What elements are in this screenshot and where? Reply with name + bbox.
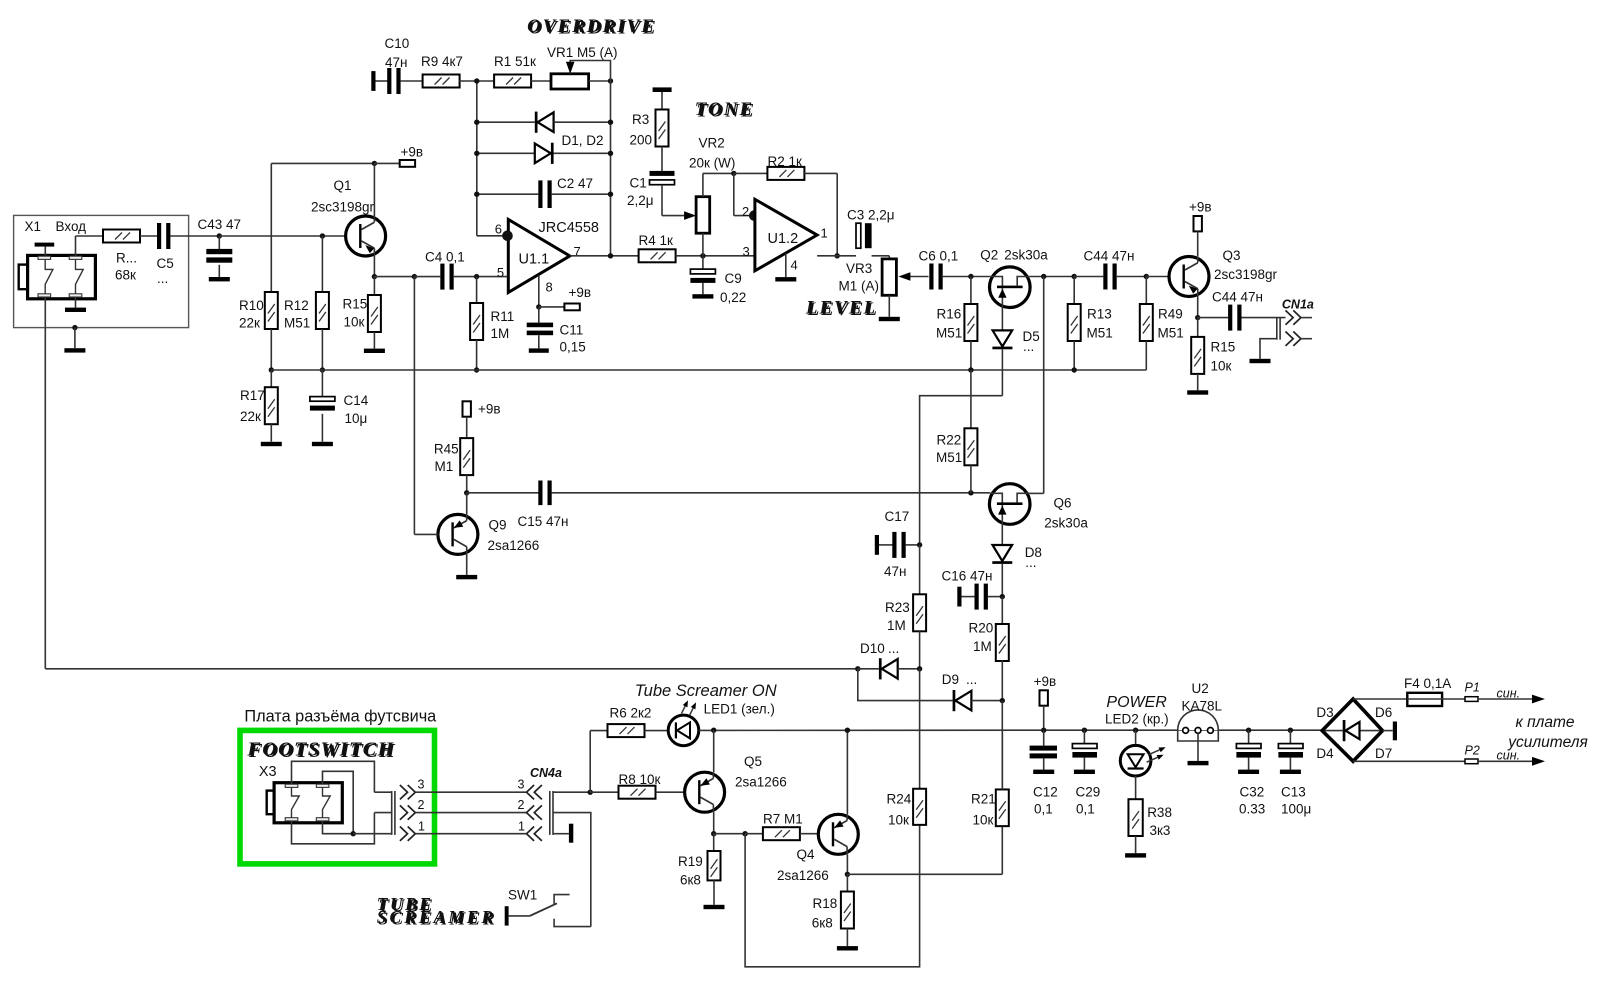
wire C5 to C43 node: [170, 235, 219, 237]
transistor Q4 2sa1266: [818, 728, 858, 855]
svg-text:C32: C32: [1240, 785, 1265, 800]
pin P2: [1465, 759, 1534, 764]
svg-text:6к8: 6к8: [812, 916, 833, 931]
wire D9 node down to R21: [1001, 701, 1003, 790]
transistor Q6 2sk30a JFET: [989, 484, 1030, 525]
svg-text:...: ...: [888, 641, 899, 656]
resistor R45 M1: [460, 438, 473, 495]
label +9в pin8: [569, 285, 592, 300]
svg-text:R20: R20: [969, 621, 994, 636]
connector left double line: [392, 791, 395, 835]
wire bridge to P2: [1353, 760, 1465, 762]
svg-text:R...: R...: [116, 251, 137, 266]
svg-text:P1: P1: [1465, 681, 1480, 695]
bridge rectifier D3 D4 D6 D7: [1322, 699, 1382, 761]
svg-text:U1.2: U1.2: [768, 231, 799, 247]
label C44 47н: [1084, 249, 1135, 264]
label Q4: [797, 847, 816, 862]
svg-text:C44 47н: C44 47н: [1212, 290, 1263, 305]
svg-text:R15: R15: [1211, 340, 1236, 355]
svg-text:C13: C13: [1281, 785, 1306, 800]
label 2sk30a Q2: [1004, 248, 1048, 263]
label D1, D2: [562, 133, 604, 148]
svg-text:47н: 47н: [385, 55, 407, 70]
label C10 47н: [385, 36, 410, 70]
R2 to output node: [804, 173, 840, 258]
CN1a ground leg: [1250, 339, 1277, 363]
label R4 1к: [639, 233, 674, 248]
label VR2: [699, 136, 725, 151]
svg-text:47н: 47н: [884, 564, 906, 579]
X1 input board box: [14, 215, 189, 327]
wire R6 to LED1: [645, 730, 669, 732]
label C15 47н: [518, 514, 569, 529]
footswitch jack X3: [267, 783, 343, 823]
svg-text:3: 3: [418, 778, 425, 792]
svg-text:Q5: Q5: [744, 754, 762, 769]
svg-text:M1 (A): M1 (A): [839, 279, 880, 294]
svg-text:X3: X3: [259, 764, 277, 780]
capacitor C12 0,1: [1030, 730, 1057, 774]
svg-text:R15: R15: [343, 297, 368, 312]
resistor R9 4к7: [423, 75, 460, 88]
resistor R24 10к: [913, 789, 926, 825]
wire R10 to mid rail: [269, 329, 274, 373]
label Q6: [1054, 496, 1072, 511]
svg-text:6к8: 6к8: [680, 873, 701, 888]
svg-text:0,1: 0,1: [1076, 802, 1095, 817]
label OVERDRIVE: [527, 16, 658, 39]
label R11 1M: [491, 309, 515, 341]
resistor R7 M1: [745, 827, 818, 840]
svg-text:C15 47н: C15 47н: [518, 514, 569, 529]
LED2 red: [1120, 728, 1165, 777]
label TONE: [695, 99, 756, 122]
node R12 top: [320, 233, 325, 238]
svg-text:2: 2: [742, 204, 749, 219]
svg-text:10к: 10к: [344, 315, 365, 330]
capacitor C17 47н: [875, 532, 923, 558]
resistor R12 M51: [316, 236, 329, 329]
resistor R17 22к: [261, 370, 282, 446]
label LED1 (зел.): [704, 702, 775, 717]
resistor R20 1M: [996, 597, 1009, 701]
node R13: [1072, 274, 1077, 279]
capacitor C29 0,1: [1072, 728, 1097, 775]
resistor R4 1к: [639, 249, 676, 262]
jack tip switch bar: [35, 243, 55, 256]
svg-text:KA78L: KA78L: [1182, 699, 1223, 714]
svg-text:0,1: 0,1: [1034, 802, 1053, 817]
svg-text:2sc3198gr: 2sc3198gr: [1214, 267, 1278, 282]
C1 to VR2 wiper arrow: [662, 211, 696, 220]
svg-text:Q3: Q3: [1223, 248, 1241, 263]
svg-text:1: 1: [821, 226, 828, 241]
node R9-R1: [459, 78, 494, 83]
svg-text:R8 10к: R8 10к: [619, 772, 661, 787]
label D9 ...: [942, 672, 977, 687]
svg-text:C44 47н: C44 47н: [1084, 249, 1135, 264]
svg-text:200: 200: [630, 133, 653, 148]
capacitor C43: [206, 236, 232, 281]
svg-text:U1.1: U1.1: [519, 252, 550, 268]
svg-text:C1: C1: [630, 176, 647, 191]
R3 top bar: [653, 87, 672, 109]
svg-text:1M: 1M: [973, 639, 992, 654]
pin P1: [1465, 697, 1534, 702]
svg-text:M51: M51: [936, 326, 962, 341]
svg-text:Q1: Q1: [334, 178, 352, 193]
label C12 0,1: [1033, 785, 1058, 817]
svg-text:R12: R12: [284, 298, 309, 313]
svg-text:R6 2к2: R6 2к2: [610, 706, 652, 721]
pin4 ground stub: [775, 253, 796, 281]
label син. P1: [1497, 686, 1521, 700]
svg-text:Q9: Q9: [489, 518, 507, 533]
capacitor C1 2,2м polar: [650, 147, 675, 216]
svg-text:3: 3: [518, 778, 525, 792]
svg-text:R18: R18: [813, 896, 838, 911]
label R2 1к: [768, 154, 803, 169]
wire to Q3 base: [1146, 276, 1169, 278]
power +9в flag R45: [463, 401, 501, 438]
connector CN1a: [1277, 310, 1312, 346]
label R7 M1: [763, 812, 803, 827]
label Плата разъёма футсвича: [244, 708, 437, 726]
svg-text:...: ...: [157, 271, 168, 286]
svg-text:LEVEL: LEVEL: [805, 298, 877, 319]
svg-text:Q4: Q4: [797, 847, 816, 862]
svg-text:Tube Screamer ON: Tube Screamer ON: [635, 682, 777, 700]
svg-text:C5: C5: [157, 256, 174, 271]
label 2sk30a Q6: [1044, 515, 1088, 530]
svg-text:R1 51к: R1 51к: [494, 54, 536, 69]
rail R6 to R8 node: [589, 731, 591, 793]
label R6 2к2: [610, 706, 652, 721]
label R10 22к: [239, 298, 264, 331]
label C3 2,2μ: [847, 208, 895, 223]
connector CN4a double line: [550, 791, 553, 835]
D5 route to C17 line: [920, 396, 1003, 545]
label P1: [1465, 681, 1480, 695]
resistor R8 10к: [590, 786, 684, 799]
svg-text:1: 1: [418, 819, 425, 833]
X3 ring inner loop: [323, 771, 356, 836]
label R8 10к: [619, 772, 661, 787]
svg-text:R11: R11: [491, 309, 515, 324]
row3 to R8 node: [553, 790, 593, 795]
Q4 collector node: [845, 854, 850, 877]
label R23 1M: [885, 600, 910, 633]
svg-text:R24: R24: [887, 792, 912, 807]
Q9 collector ground: [456, 554, 477, 579]
svg-text:POWER: POWER: [1106, 694, 1167, 711]
svg-text:Q6: Q6: [1054, 496, 1072, 511]
label R19 6к8: [678, 854, 703, 888]
svg-text:...: ...: [1025, 555, 1036, 570]
svg-text:C11: C11: [560, 323, 584, 338]
wire C43 to Q1 base: [219, 235, 345, 237]
svg-text:1: 1: [518, 819, 525, 833]
bottom wire Q4 to R21: [847, 826, 1002, 874]
label R45 M1: [434, 442, 459, 475]
svg-text:FOOTSWITCH: FOOTSWITCH: [246, 739, 394, 761]
label Q9: [489, 518, 507, 533]
svg-text:VR1 M5 (A): VR1 M5 (A): [547, 45, 618, 60]
label C14 10μ: [344, 393, 369, 426]
label D6: [1375, 705, 1392, 720]
label VR1 M5 (A): [547, 45, 618, 60]
svg-text:8: 8: [546, 280, 553, 295]
label 47н C17: [884, 564, 906, 579]
svg-text:Вход: Вход: [56, 219, 87, 234]
svg-text:OVERDRIVE: OVERDRIVE: [527, 16, 656, 37]
label C29 0,1: [1076, 785, 1101, 817]
capacitor C5: [157, 223, 170, 249]
wire R... to C5: [140, 235, 157, 237]
pin label 5: [497, 265, 504, 280]
resistor R6 2к2: [590, 724, 644, 737]
svg-text:4: 4: [791, 258, 798, 273]
svg-text:R4 1к: R4 1к: [639, 233, 674, 248]
wire C6 to Q2: [943, 274, 990, 279]
resistor R11 1M: [470, 277, 483, 373]
wire R1 to VR1: [531, 80, 551, 82]
svg-text:SW1: SW1: [508, 888, 537, 903]
label C1 2,2μ: [627, 176, 654, 209]
svg-text:VR2: VR2: [699, 136, 725, 151]
wire C15 to Q6 gate: [968, 490, 990, 495]
svg-text:U2: U2: [1192, 681, 1209, 696]
LED1 green: [668, 700, 699, 745]
label CN1a: [1282, 298, 1314, 312]
svg-text:M51: M51: [1087, 326, 1113, 341]
wire LED1 to rail: [699, 728, 1044, 733]
label Q5: [744, 754, 762, 769]
label Tube Screamer ON: [635, 682, 777, 700]
Q9 base wire: [414, 533, 438, 535]
svg-text:C29: C29: [1076, 785, 1101, 800]
label R16 M51: [936, 307, 962, 341]
svg-text:C17: C17: [885, 509, 910, 524]
svg-text:2sa1266: 2sa1266: [735, 775, 787, 790]
bypass wire from X1: [45, 666, 860, 671]
R21 top wire: [1001, 730, 1003, 789]
wire R4 to pin3 node: [676, 253, 755, 258]
cable rows to CN4a: [434, 792, 527, 834]
ground below X1 box: [64, 328, 85, 353]
svg-text:2sk30a: 2sk30a: [1004, 248, 1048, 263]
resistor R13 M51: [1068, 277, 1081, 373]
svg-text:CN4a: CN4a: [530, 766, 562, 780]
svg-text:Плата разъёма футсвича: Плата разъёма футсвича: [244, 708, 437, 726]
op-amp U1.2: [755, 199, 817, 270]
svg-text:10к: 10к: [973, 813, 994, 828]
svg-text:TONE: TONE: [695, 99, 754, 120]
resistor R16 M51: [964, 277, 977, 373]
row2 to SW1: [553, 813, 591, 927]
label C9 0,22: [720, 271, 746, 305]
wire C4 to pin5: [454, 274, 509, 279]
bridge right terminal bar: [1383, 722, 1398, 741]
diode D2: [474, 143, 613, 164]
svg-text:2sa1266: 2sa1266: [777, 868, 829, 883]
label CN4a: [530, 766, 562, 780]
diode D9: [953, 690, 1005, 711]
feedback left vertical: [476, 81, 478, 236]
Q5 collector node: [711, 812, 716, 836]
pin label 4: [791, 258, 798, 273]
label Q2: [980, 248, 998, 263]
wire D10 node down to R24: [919, 669, 921, 789]
resistor R3 200: [656, 110, 669, 147]
svg-text:M51: M51: [284, 316, 310, 331]
label Q1: [334, 178, 352, 193]
label D8 ...: [1025, 545, 1042, 570]
svg-text:D9: D9: [942, 672, 959, 687]
label R22 M51: [936, 433, 962, 466]
pin2 wire: [734, 173, 760, 221]
label C4 0,1: [425, 250, 465, 265]
svg-text:7: 7: [574, 244, 581, 259]
diode D8: [992, 524, 1012, 597]
capacitor C4 0,1: [440, 264, 453, 290]
resistor R10 22к: [265, 292, 278, 329]
Q2 drain node: [1030, 274, 1074, 279]
label LEVEL: [805, 298, 879, 321]
resistor R22 M51: [964, 370, 977, 493]
diode D10: [858, 658, 923, 679]
svg-text:D4: D4: [1316, 746, 1334, 761]
capacitor C6 0,1: [929, 264, 942, 290]
svg-text:син.: син.: [1497, 686, 1521, 700]
diode D5: [992, 307, 1012, 396]
U1.1 output wire: [570, 253, 639, 258]
label R12 M51: [284, 298, 310, 331]
label R38 3к3: [1147, 805, 1172, 838]
label D3: [1316, 705, 1333, 720]
label C17: [885, 509, 910, 524]
svg-text:R17: R17: [240, 388, 265, 403]
svg-text:C43 47: C43 47: [198, 217, 242, 232]
svg-text:C12: C12: [1033, 785, 1058, 800]
Q3 emitter node: [1195, 297, 1200, 321]
capacitor C3 2,2м polar: [856, 223, 872, 248]
VR3 ground: [879, 295, 900, 321]
label D10 ...: [860, 641, 899, 656]
svg-text:R16: R16: [937, 307, 962, 322]
label C13 100μ: [1281, 785, 1311, 817]
svg-text:+9в: +9в: [401, 145, 424, 160]
label JRC4558: [539, 220, 599, 236]
label KA78L: [1182, 699, 1223, 714]
svg-text:F4 0,1A: F4 0,1A: [1404, 676, 1451, 691]
label D5 ...: [1023, 329, 1040, 354]
label P2: [1465, 744, 1480, 758]
label R17 22к: [240, 388, 265, 424]
svg-text:R22: R22: [937, 433, 962, 448]
svg-text:22к: 22к: [240, 409, 261, 424]
label M1 (A): [839, 279, 880, 294]
svg-text:1M: 1M: [887, 618, 906, 633]
label син. P2: [1497, 748, 1521, 762]
svg-text:P2: P2: [1465, 744, 1480, 758]
svg-text:D1, D2: D1, D2: [562, 133, 604, 148]
svg-text:C3 2,2μ: C3 2,2μ: [847, 208, 895, 223]
svg-text:M1: M1: [435, 459, 454, 474]
resistor R19 6к8: [704, 834, 725, 910]
resistor R23 1M: [913, 545, 926, 669]
pin label 3: [743, 244, 750, 259]
svg-text:M51: M51: [936, 450, 962, 465]
label FOOTSWITCH: [246, 739, 396, 763]
transistor Q5 2sa1266: [685, 730, 725, 812]
svg-text:R23: R23: [885, 600, 910, 615]
label R21 10к: [971, 792, 996, 828]
transistor Q1 2sc3198gr: [346, 216, 386, 256]
node C43: [217, 233, 222, 238]
label LED2 (кр.): [1105, 712, 1169, 727]
label R20 1M: [969, 621, 994, 655]
VR3 wiper arrow: [898, 272, 928, 281]
svg-text:...: ...: [1023, 339, 1034, 354]
svg-text:+9в: +9в: [569, 285, 592, 300]
pin 8 stub and +9в: [536, 276, 564, 310]
svg-text:10к: 10к: [888, 813, 909, 828]
capacitor C16 47н: [957, 584, 1005, 610]
label POWER: [1106, 694, 1167, 711]
pin label 8: [546, 280, 553, 295]
capacitor C10 47н: [371, 68, 423, 94]
label 2sc3198gr Q3: [1214, 267, 1278, 282]
svg-text:R49: R49: [1158, 307, 1183, 322]
resistor R49 M51: [1140, 277, 1153, 371]
capacitor C44 47н: [1074, 264, 1146, 290]
svg-text:22к: 22к: [239, 316, 260, 331]
resistor R18 6к8: [837, 874, 858, 950]
pin label 7: [574, 244, 581, 259]
connector left chevrons: [400, 785, 434, 841]
svg-text:2sk30a: 2sk30a: [1044, 515, 1088, 530]
voltage regulator U2 KA78L: [1178, 710, 1219, 765]
svg-text:C14: C14: [344, 393, 369, 408]
capacitor C2 47: [474, 180, 613, 208]
capacitor C15 47н: [467, 481, 971, 506]
resistor R15 10к: [364, 256, 385, 353]
svg-text:0,22: 0,22: [720, 290, 746, 305]
svg-text:SCREAMER: SCREAMER: [377, 907, 496, 927]
label C2 47: [557, 176, 593, 191]
svg-text:2: 2: [418, 798, 425, 812]
resistor R38 3к3: [1125, 776, 1146, 858]
label к плате усилителя: [1507, 714, 1588, 751]
transistor Q9 2sa1266: [438, 493, 478, 555]
mid horizontal rail: [271, 369, 1146, 371]
green footswitch box: [240, 730, 435, 864]
label R9 4к7: [421, 54, 463, 69]
svg-text:6: 6: [495, 222, 502, 237]
connector CN4a chevrons: [527, 785, 542, 841]
pin labels 3 2 1 left: [418, 778, 426, 834]
label C5 ...: [157, 256, 174, 286]
svg-text:2: 2: [518, 798, 525, 812]
label X1: [25, 219, 42, 234]
input jack X1: [19, 255, 96, 298]
label D4: [1316, 746, 1334, 761]
wire Q5c to R7 node: [714, 831, 748, 836]
capacitor C11 0,15: [527, 307, 553, 353]
label U2: [1192, 681, 1209, 696]
